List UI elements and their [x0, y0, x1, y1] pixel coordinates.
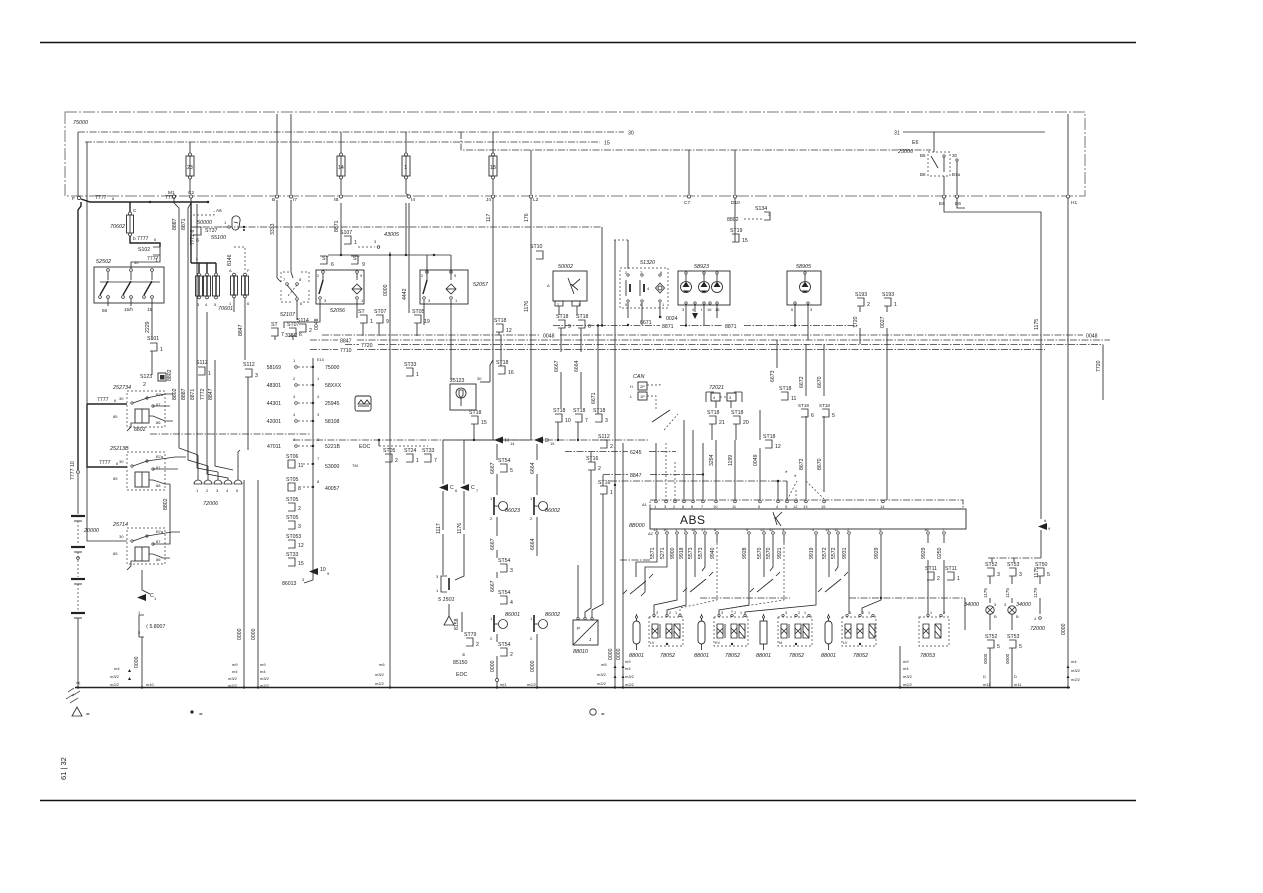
bus 8847: [310, 339, 1110, 345]
connector ST18 6: [574, 314, 591, 408]
svg-text:14: 14: [825, 527, 830, 532]
svg-text:25714: 25714: [112, 522, 128, 528]
svg-text:J4: J4: [486, 197, 491, 203]
svg-text:ST11: ST11: [945, 566, 957, 572]
svg-text:2: 2: [530, 516, 533, 521]
svg-text:B: B: [994, 614, 997, 619]
sensor front-left: [623, 574, 653, 594]
connector ST18 12 mid: [753, 410, 781, 500]
svg-text:ST: ST: [322, 256, 329, 262]
symbol triangle 51501: [444, 604, 462, 632]
ladder row 47011 5221B: [267, 437, 371, 450]
svg-text:10: 10: [713, 504, 718, 509]
switch 52107: [280, 272, 309, 320]
svg-text:117: 117: [486, 214, 492, 222]
fuse 70602: [110, 202, 160, 247]
svg-text:85: 85: [113, 476, 118, 481]
fuse 18: [489, 132, 497, 194]
svg-text:D: D: [1014, 674, 1017, 679]
svg-text:1: 1: [610, 490, 613, 496]
connector ST05 3: [286, 515, 301, 530]
arrow C7: [460, 484, 479, 493]
wire F riser: [78, 132, 87, 404]
lamp 25123: [450, 360, 493, 410]
icon instrument: [355, 396, 371, 411]
svg-text:86002: 86002: [545, 612, 560, 618]
valve block 78052 a: [649, 611, 683, 659]
connector S193 1: [880, 292, 897, 500]
svg-text:78052: 78052: [789, 653, 804, 659]
svg-text:3: 3: [721, 611, 723, 615]
svg-text:0000: 0000: [383, 284, 389, 296]
fuse box 75000 outline: [65, 112, 1085, 196]
svg-text:ST53: ST53: [1007, 562, 1020, 568]
svg-text:20: 20: [743, 420, 749, 426]
svg-text:ST10: ST10: [530, 244, 543, 250]
svg-text:ST18: ST18: [556, 314, 569, 320]
bus 0048: [314, 318, 1098, 339]
valve block 78052 d: [842, 611, 876, 659]
svg-text:6: 6: [682, 504, 685, 509]
svg-text:S134: S134: [755, 206, 767, 212]
svg-text:8802: 8802: [134, 427, 146, 433]
svg-text:5: 5: [997, 644, 1000, 650]
svg-text:ST33: ST33: [422, 448, 435, 454]
device 86023: [490, 496, 520, 558]
svg-text:S193: S193: [882, 292, 894, 298]
svg-text:ST54: ST54: [498, 642, 511, 648]
svg-text:4442: 4442: [402, 288, 408, 300]
svg-text:m5: m5: [601, 662, 607, 667]
svg-text:8847: 8847: [630, 473, 642, 479]
bus right lamp feed: [988, 558, 1041, 562]
svg-text:70601: 70601: [218, 306, 233, 312]
svg-text:ST18: ST18: [763, 434, 776, 440]
top rule: [40, 42, 1136, 44]
svg-text:3: 3: [656, 611, 658, 615]
arrow C6: [439, 484, 458, 493]
svg-text:=: =: [86, 711, 90, 718]
terminal B: [272, 114, 279, 203]
svg-text:1: 1: [662, 302, 665, 307]
svg-text:2: 2: [867, 302, 870, 308]
fuse 23: [186, 142, 194, 194]
svg-text:25213B: 25213B: [109, 446, 129, 452]
svg-text:8802: 8802: [163, 498, 169, 510]
wire 3333: [270, 200, 293, 282]
device 86002 lower: [530, 612, 560, 687]
svg-text:ST54: ST54: [498, 558, 511, 564]
svg-text:30: 30: [119, 396, 124, 401]
svg-text:B5: B5: [920, 153, 926, 158]
svg-text:ST05: ST05: [412, 309, 425, 315]
svg-text:ST18: ST18: [469, 410, 482, 416]
svg-text:8847: 8847: [340, 339, 352, 345]
svg-text:6667: 6667: [554, 360, 560, 372]
wire 1176 lower: [457, 491, 464, 572]
connector ST54 5: [498, 458, 513, 474]
svg-text:8: 8: [299, 277, 302, 282]
svg-text:ST18: ST18: [496, 360, 509, 366]
svg-text:S107: S107: [340, 230, 352, 236]
connector S112 2: [598, 434, 613, 450]
svg-text:E6: E6: [955, 201, 961, 207]
relay 25213B: [87, 404, 186, 490]
svg-text:3: 3: [1004, 602, 1007, 607]
svg-text:ST54: ST54: [498, 458, 511, 464]
switch 52502: [94, 259, 164, 313]
wire stubs to 0048: [275, 323, 417, 340]
svg-text:30: 30: [134, 260, 139, 265]
svg-text:15: 15: [550, 441, 555, 446]
svg-text:6: 6: [196, 238, 199, 244]
svg-text:7: 7: [476, 488, 479, 493]
svg-text:6: 6: [300, 301, 303, 306]
svg-text:11: 11: [298, 463, 303, 469]
svg-text:LV: LV: [650, 641, 655, 645]
connector ST18 6 mid: [798, 403, 814, 500]
svg-text:25006: 25006: [897, 149, 913, 155]
svg-text:6: 6: [112, 196, 115, 201]
svg-text:6: 6: [247, 301, 250, 306]
svg-text:ST05: ST05: [286, 515, 299, 521]
svg-text:=: =: [601, 711, 605, 718]
svg-text:6667: 6667: [490, 538, 496, 550]
wire 8871 column: [181, 203, 208, 480]
svg-text:3: 3: [324, 298, 327, 303]
svg-text:t: t: [701, 307, 703, 312]
svg-text:50000: 50000: [197, 220, 212, 226]
svg-text:23: 23: [187, 165, 193, 171]
svg-text:9: 9: [386, 319, 389, 325]
svg-text:11: 11: [834, 527, 839, 532]
connector ST18 7: [573, 408, 588, 441]
connector ST52 5: [983, 634, 1000, 687]
ladder main vertical: [312, 358, 314, 580]
ladder row 58169 75000: [267, 357, 340, 371]
connector ST16 2: [586, 452, 601, 560]
wire 7772 column: [190, 204, 218, 480]
svg-text:3: 3: [605, 418, 608, 424]
svg-text:ABS: ABS: [680, 513, 706, 527]
relay 25714: [87, 467, 180, 570]
svg-text:ST24: ST24: [404, 448, 417, 454]
svg-text:m4: m4: [625, 666, 631, 671]
svg-text:15: 15: [604, 141, 610, 147]
connector ST18 16: [496, 335, 514, 376]
svg-text:15: 15: [715, 307, 720, 312]
sensor rear-right: [818, 572, 848, 592]
svg-text:58: 58: [102, 308, 108, 313]
connector ST11 1: [945, 566, 960, 582]
svg-text:2: 2: [421, 273, 424, 278]
svg-text:2: 2: [138, 630, 141, 635]
wire top link y255: [328, 203, 451, 256]
svg-text:I7: I7: [293, 197, 297, 203]
terminal E6: [955, 195, 961, 207]
ground node 497: [496, 679, 508, 689]
pump unit 58923: [678, 264, 730, 327]
svg-text:9929: 9929: [921, 547, 927, 559]
svg-text:6: 6: [299, 332, 302, 338]
svg-text:1: 1: [804, 611, 806, 615]
connector ST18 15: [469, 410, 487, 441]
junction 72021: [706, 385, 742, 408]
connector ST05 19: [412, 309, 430, 325]
svg-text:0000: 0000: [530, 660, 536, 672]
svg-text:3: 3: [317, 437, 320, 442]
svg-text:7777: 7777: [147, 256, 159, 262]
svg-text:16: 16: [508, 370, 514, 376]
connector ST07 9: [374, 309, 389, 325]
svg-text:31: 31: [894, 131, 900, 137]
connector ST18 5: [817, 403, 835, 492]
node D10 drop S134: [727, 198, 771, 244]
svg-text:0024: 0024: [666, 316, 678, 322]
svg-text:ST07: ST07: [374, 309, 387, 315]
svg-text:ST18: ST18: [819, 403, 830, 408]
svg-text:1: 1: [675, 611, 677, 615]
svg-text:85: 85: [113, 551, 118, 556]
node A6 50000: [191, 205, 230, 244]
svg-text:5 1501: 5 1501: [438, 597, 455, 603]
svg-text:3: 3: [216, 488, 219, 493]
svg-text:30: 30: [119, 534, 124, 539]
svg-text:3: 3: [997, 572, 1000, 578]
svg-text:m3/2: m3/2: [903, 674, 913, 679]
lamp 34000 right: [1004, 602, 1031, 630]
svg-text:C: C: [450, 485, 454, 491]
ladder row 42001 58108: [267, 412, 340, 425]
connector ST05 8: [286, 477, 340, 492]
svg-text:85150: 85150: [453, 660, 468, 666]
svg-text:7777: 7777: [165, 195, 177, 201]
svg-text:13: 13: [653, 527, 658, 532]
svg-text:4: 4: [713, 395, 716, 400]
connector ST33 15: [286, 552, 304, 567]
abs lower pins: [648, 527, 945, 536]
svg-text:1: 1: [404, 165, 407, 171]
svg-text:15: 15: [742, 238, 748, 244]
svg-text:m2/2: m2/2: [228, 683, 238, 688]
svg-text:9: 9: [327, 571, 330, 576]
svg-text:B7a: B7a: [952, 172, 961, 177]
node 85150 EOC: [453, 660, 468, 678]
svg-text:ST53: ST53: [1007, 634, 1020, 640]
svg-text:3: 3: [782, 527, 785, 532]
connector ST53 3: [1005, 562, 1022, 603]
svg-text:ST79: ST79: [464, 632, 477, 638]
svg-text:18: 18: [490, 165, 496, 171]
svg-text:2: 2: [673, 504, 676, 509]
svg-text:3: 3: [1019, 572, 1022, 578]
svg-text:ST: ST: [353, 256, 360, 262]
svg-text:2: 2: [206, 488, 209, 493]
wire 8847 column b: [208, 360, 233, 470]
svg-text:9940: 9940: [710, 547, 716, 559]
ground node m1: [76, 680, 80, 689]
svg-text:ST18: ST18: [576, 314, 589, 320]
svg-text:7772: 7772: [200, 388, 206, 400]
svg-text:4: 4: [293, 412, 296, 417]
svg-text:1175: 1175: [1005, 588, 1010, 598]
wire 117 / 1117: [436, 198, 493, 484]
lamp 34000 left: [964, 602, 997, 630]
svg-text:5572: 5572: [831, 547, 837, 559]
svg-text:ST06: ST06: [286, 454, 299, 460]
svg-text:B6: B6: [920, 172, 926, 177]
svg-text:3: 3: [197, 302, 200, 307]
svg-text:6: 6: [791, 307, 794, 312]
valve block 78053: [919, 560, 949, 659]
svg-text:2P: 2P: [640, 384, 645, 389]
svg-text:10: 10: [320, 567, 326, 573]
svg-text:6: 6: [331, 262, 334, 268]
svg-text:42: 42: [769, 527, 774, 532]
wire 176 / 1176: [464, 198, 531, 484]
relay 252734: [87, 385, 173, 431]
svg-text:15: 15: [298, 561, 304, 567]
svg-text:3: 3: [255, 373, 258, 379]
connector S123: [140, 369, 173, 388]
arrow H14: [494, 437, 515, 447]
svg-text:5: 5: [214, 302, 217, 307]
connector row below 52056: ST 7: [271, 322, 284, 338]
svg-text:8887: 8887: [172, 218, 178, 230]
fuse 1: [402, 132, 410, 194]
svg-text:7777: 7777: [99, 460, 111, 466]
svg-text:m9: m9: [625, 659, 631, 664]
svg-text:2: 2: [798, 611, 800, 615]
svg-text:0048: 0048: [1086, 334, 1098, 340]
svg-text:ST19: ST19: [730, 228, 743, 234]
svg-text:8847: 8847: [208, 388, 214, 400]
svg-text:7777 10: 7777 10: [70, 461, 76, 480]
svg-text:30: 30: [477, 376, 482, 381]
svg-text:m9: m9: [232, 662, 238, 667]
svg-text:0000: 0000: [251, 628, 257, 640]
connector ST10: [530, 244, 543, 259]
svg-text:3: 3: [994, 602, 997, 607]
svg-text:30: 30: [628, 131, 634, 137]
svg-text:1: 1: [957, 576, 960, 582]
svg-text:0000: 0000: [983, 653, 988, 664]
svg-text:3: 3: [302, 577, 305, 582]
svg-text:7710: 7710: [340, 348, 352, 354]
svg-text:1P: 1P: [640, 394, 645, 399]
svg-text:2: 2: [143, 382, 146, 388]
fuse cluster 70601: [191, 203, 320, 328]
svg-text:9929: 9929: [874, 547, 880, 559]
fuse 14: [337, 132, 345, 194]
svg-text:5: 5: [625, 302, 628, 307]
svg-text:LV: LV: [843, 641, 848, 645]
svg-text:8802: 8802: [167, 369, 173, 381]
svg-text:2: 2: [395, 458, 398, 464]
valve pill 88001 b: [694, 614, 709, 659]
svg-text:6670: 6670: [817, 376, 823, 388]
svg-text:ST52: ST52: [985, 562, 998, 568]
abs pin risers: [656, 420, 824, 500]
svg-text:m3/2: m3/2: [1071, 668, 1081, 673]
svg-text:53000: 53000: [325, 464, 340, 470]
svg-text:ST16: ST16: [598, 480, 611, 486]
svg-text:m3/2: m3/2: [260, 676, 270, 681]
wire 9929/valve drop to ground: [667, 644, 900, 687]
abs pin strip: [642, 500, 963, 509]
svg-text:42001: 42001: [267, 419, 282, 425]
svg-text:12: 12: [775, 444, 781, 450]
wire 8802 horizontal: [134, 427, 310, 434]
icon horn 55100: [232, 216, 245, 231]
svg-text:6672: 6672: [799, 376, 805, 388]
svg-text:S193: S193: [855, 292, 867, 298]
abs lower wire labels: [650, 535, 944, 559]
terminal C7: [684, 150, 691, 206]
svg-text:8871: 8871: [181, 218, 187, 230]
svg-text:2: 2: [298, 506, 301, 512]
ground node m4 group left: [110, 666, 155, 689]
ground node 900: [899, 659, 913, 689]
wire valve feeds: [620, 543, 965, 630]
svg-text:52056: 52056: [330, 308, 345, 314]
svg-text:m3/2: m3/2: [597, 672, 607, 677]
svg-text:1: 1: [868, 611, 870, 615]
svg-text:88010: 88010: [573, 649, 588, 655]
svg-text:19: 19: [424, 319, 430, 325]
svg-text:9900: 9900: [670, 547, 676, 559]
wire 8802 riser: [163, 484, 170, 516]
svg-text:3: 3: [510, 568, 513, 574]
svg-text:9931: 9931: [842, 547, 848, 559]
wire 6670: [817, 344, 824, 396]
svg-text:9: 9: [360, 273, 363, 278]
svg-text:J: J: [589, 637, 591, 642]
svg-text:9: 9: [746, 527, 749, 532]
connector S112 1: [196, 360, 211, 377]
svg-text:6: 6: [455, 488, 458, 493]
svg-text:86: 86: [156, 420, 161, 425]
svg-text:2: 2: [490, 516, 493, 521]
svg-text:0049: 0049: [753, 454, 759, 466]
svg-text:S112: S112: [196, 360, 208, 366]
connector ST54 2: [490, 642, 513, 687]
terminal I4: [406, 194, 415, 203]
svg-text:3294: 3294: [709, 454, 715, 466]
wire 15 bus: [85, 141, 610, 147]
svg-text:5: 5: [1047, 572, 1050, 578]
svg-text:1: 1: [740, 611, 742, 615]
svg-text:40057: 40057: [325, 486, 340, 492]
connector ST053 12: [286, 534, 304, 549]
arrow 10 9: [309, 567, 330, 576]
fuse pair 8146: [227, 247, 250, 360]
svg-text:I4: I4: [411, 197, 415, 203]
svg-text:m11: m11: [1014, 682, 1022, 687]
connector S112 3: [243, 362, 258, 450]
svg-text:6664: 6664: [574, 360, 580, 372]
svg-text:8871: 8871: [334, 220, 340, 232]
ground node 615: [597, 659, 635, 689]
svg-text:1: 1: [138, 610, 141, 615]
svg-text:85: 85: [113, 414, 118, 419]
svg-text:52057: 52057: [473, 282, 489, 288]
svg-text:9: 9: [568, 324, 571, 330]
terminal J4: [486, 195, 495, 203]
svg-text:8B000: 8B000: [629, 523, 645, 529]
svg-text:10: 10: [663, 527, 668, 532]
svg-text:L2: L2: [533, 197, 539, 203]
